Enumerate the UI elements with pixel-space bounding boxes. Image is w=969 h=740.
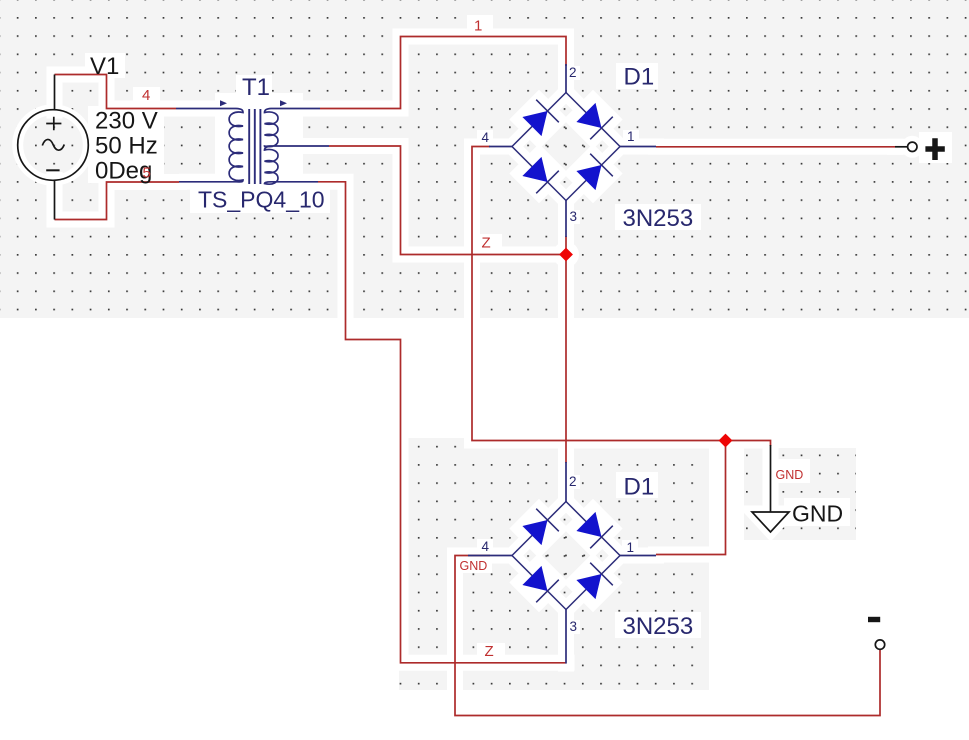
wire plus terminal lead — [895, 146, 907, 148]
wire GND junction to bridge bottom pin 1 — [656, 441, 726, 555]
bridge rectifier D1 (bottom) diamond body — [512, 502, 620, 610]
wire V1 top stub — [54, 75, 56, 111]
voltage source V1 — [18, 110, 89, 181]
svg-text:GND: GND — [460, 559, 488, 573]
svg-text:TS_PQ4_10: TS_PQ4_10 — [198, 187, 325, 213]
diode bottom upper-right — [576, 512, 612, 548]
svg-text:2: 2 — [569, 65, 577, 80]
wire bridge bottom pin 4 to minus terminal — [455, 556, 880, 716]
svg-text:1: 1 — [474, 18, 482, 35]
pin 4 lead (top bridge) — [489, 146, 513, 148]
svg-text:3N253: 3N253 — [623, 613, 694, 640]
diode top upper-left — [522, 100, 558, 136]
bridge rectifier D1 (top) diamond body — [512, 93, 620, 201]
diode top lower-right — [576, 154, 612, 190]
diode top upper-right — [576, 103, 612, 139]
svg-text:5: 5 — [143, 165, 151, 182]
terminal minus — [868, 620, 885, 650]
svg-text:D1: D1 — [624, 64, 655, 91]
wire net 1 secondary top to bridge top pin 2 — [320, 37, 566, 109]
svg-text:Z: Z — [485, 643, 494, 660]
svg-text:3: 3 — [570, 209, 578, 224]
junction net Z — [559, 248, 573, 262]
wire ground lead — [770, 445, 772, 512]
junction net GND — [719, 434, 733, 448]
transformer polarity arrow right — [280, 100, 287, 106]
svg-text:4: 4 — [142, 87, 150, 104]
ground symbol — [752, 512, 789, 532]
svg-text:4: 4 — [482, 539, 490, 554]
wire bridge top pin 1 to plus terminal — [656, 146, 895, 148]
pin 3 lead (bottom bridge) — [565, 610, 567, 664]
transformer polarity arrow left — [220, 100, 227, 106]
svg-text:D1: D1 — [624, 474, 655, 501]
wire V1 bottom stub — [54, 180, 56, 220]
svg-text:V1: V1 — [90, 53, 119, 80]
wire junction to bridge bottom pin 2 — [565, 255, 567, 464]
transformer T1 — [176, 109, 329, 185]
diode bottom lower-right — [576, 563, 612, 599]
svg-text:GND: GND — [776, 468, 804, 482]
svg-text:1: 1 — [627, 129, 635, 144]
wire secondary bottom to bridge bottom pin 3 — [318, 182, 567, 663]
pin 4 lead (bottom bridge) — [468, 555, 513, 557]
pin 3 lead (top bridge) — [565, 201, 567, 238]
svg-text:3: 3 — [570, 619, 578, 634]
pin 2 lead (bottom bridge) — [565, 462, 567, 502]
svg-text:4: 4 — [482, 130, 490, 145]
svg-text:GND: GND — [792, 501, 843, 527]
svg-text:1: 1 — [627, 540, 635, 555]
svg-text:2: 2 — [569, 474, 577, 489]
svg-text:Z: Z — [482, 235, 491, 252]
pin 2 lead (top bridge) — [565, 64, 567, 93]
wire bridge top pin 4 to GND junction — [472, 147, 771, 447]
diode bottom lower-left — [522, 566, 558, 602]
terminal plus — [908, 138, 945, 160]
svg-text:50 Hz: 50 Hz — [95, 133, 158, 160]
wire net Z secondary mid to junction — [329, 146, 566, 255]
svg-text:230 V: 230 V — [95, 108, 158, 135]
wire V1 bottom to transformer — [55, 182, 180, 220]
wire bridge top pin 3 to junction — [565, 236, 567, 255]
wire V1 top to transformer — [55, 75, 177, 109]
diode bottom upper-left — [522, 509, 558, 545]
diode top lower-left — [522, 157, 558, 193]
svg-text:3N253: 3N253 — [623, 205, 694, 232]
pin 1 lead (bottom bridge) — [620, 555, 657, 557]
pin 1 lead (top bridge) — [620, 146, 657, 148]
svg-text:T1: T1 — [242, 74, 270, 101]
